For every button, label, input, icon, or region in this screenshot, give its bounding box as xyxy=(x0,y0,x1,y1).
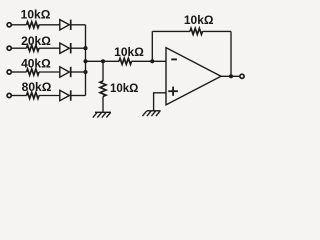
input terminal 1 xyxy=(7,23,11,27)
wire xyxy=(39,24,60,26)
wire to inverting input xyxy=(132,60,167,62)
input terminal 4 xyxy=(7,93,11,97)
wire xyxy=(39,95,60,97)
summing bus wire xyxy=(85,25,87,96)
resistor 80k ohm (row 4) xyxy=(27,93,40,99)
wire xyxy=(71,47,86,49)
wire xyxy=(102,97,104,113)
svg-text:40kΩ: 40kΩ xyxy=(21,57,51,71)
node junction dot shunt branch xyxy=(101,59,105,63)
output terminal xyxy=(240,74,244,78)
resistor 40k ohm (row 3) xyxy=(27,69,40,75)
input terminal 2 xyxy=(7,46,11,50)
node junction dot row 3 xyxy=(83,70,87,74)
wire xyxy=(39,71,60,73)
wire xyxy=(12,95,27,97)
svg-text:10kΩ: 10kΩ xyxy=(110,83,138,95)
resistor 10k ohm series xyxy=(119,58,132,64)
wire output xyxy=(221,75,240,77)
input terminal 3 xyxy=(7,70,11,74)
wire feedback riser xyxy=(151,31,153,61)
diode D1 xyxy=(60,20,71,30)
resistor 10k ohm shunt xyxy=(100,81,106,97)
wire feedback top left xyxy=(152,30,190,32)
wire feedback drop xyxy=(230,31,232,76)
diode D4 xyxy=(60,90,71,100)
node junction dot row 2 xyxy=(83,46,87,50)
ground (op-amp) xyxy=(142,111,160,116)
wire summing node to series resistor xyxy=(86,60,120,62)
node junction dot feedback xyxy=(150,59,154,63)
svg-text:10kΩ: 10kΩ xyxy=(184,13,214,27)
node junction dot output xyxy=(229,74,233,78)
wire xyxy=(71,95,86,97)
wire xyxy=(71,71,86,73)
wire non-inverting input xyxy=(154,93,166,111)
wire xyxy=(12,71,27,73)
resistor 20k ohm (row 2) xyxy=(27,45,40,51)
wire xyxy=(71,24,86,26)
wire xyxy=(12,47,27,49)
wire xyxy=(39,47,60,49)
resistor 10k ohm (row 1) xyxy=(27,22,40,28)
wire feedback top right xyxy=(203,30,232,32)
svg-text:10kΩ: 10kΩ xyxy=(21,7,51,21)
diode D2 xyxy=(60,43,71,53)
op-amp U1 xyxy=(166,48,221,105)
resistor 10k ohm feedback xyxy=(190,28,203,34)
svg-text:10kΩ: 10kΩ xyxy=(114,45,144,59)
node junction dot tap xyxy=(83,59,87,63)
wire shunt branch down xyxy=(102,61,104,81)
svg-text:80kΩ: 80kΩ xyxy=(22,80,52,94)
svg-text:20kΩ: 20kΩ xyxy=(21,34,51,48)
ground (summing network) xyxy=(93,112,111,117)
diode D3 xyxy=(60,67,71,77)
wire xyxy=(12,24,27,26)
